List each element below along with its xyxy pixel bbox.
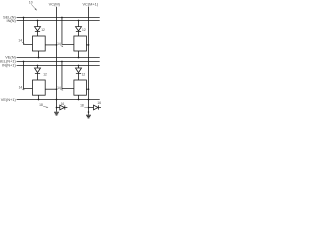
cell r0c1 left wire	[62, 18, 74, 45]
wire VE(N) row line L3	[17, 57, 100, 59]
wire box r1c0 to VC(M)	[45, 88, 56, 90]
junction VC(M+1) bottom	[88, 107, 90, 109]
diode 12 r1c0	[35, 68, 41, 80]
svg-text:16: 16	[61, 102, 65, 106]
wire box r1c0 to VE(N+1)	[38, 95, 40, 99]
junction L1/left wire c0	[23, 17, 25, 19]
svg-text:16: 16	[97, 101, 101, 105]
arrow for label 10	[31, 4, 35, 9]
diode 12 wire r0c1	[78, 21, 80, 27]
junction VC(M) bottom	[56, 107, 58, 109]
box 14 r0c1	[74, 36, 87, 51]
junction L2/diode c0	[37, 20, 39, 22]
svg-text:14: 14	[19, 86, 23, 90]
svg-text:14: 14	[57, 86, 61, 90]
svg-text:VE(N+1): VE(N+1)	[1, 97, 17, 102]
diode 12 wire r1c1	[78, 66, 80, 69]
wire column VC(M+1)	[88, 7, 90, 115]
junction L6/box c0	[38, 99, 40, 101]
arrow for label 14 r0c1	[60, 45, 62, 46]
junction VC(M)/box r1	[56, 88, 58, 90]
arrow for label 14 r1c1	[60, 88, 62, 91]
svg-text:VC(M): VC(M)	[49, 1, 61, 6]
junction VC(M)/L6	[56, 99, 58, 101]
junction VC(M+1)/box r1	[88, 88, 90, 90]
diode 12 r0c0	[35, 27, 41, 36]
box 14 r1c0	[33, 80, 46, 95]
svg-text:12: 12	[43, 72, 47, 76]
junction L2/diode c1	[78, 20, 80, 22]
wire column VC(M)	[56, 7, 58, 112]
svg-text:18: 18	[80, 104, 84, 108]
diode 12 r1c1	[76, 68, 82, 80]
junction L6/box c1	[78, 99, 80, 101]
wire box r1c1 to VC(M+1)	[86, 88, 88, 90]
diode 12 r0c1	[76, 27, 82, 36]
wire IN(N) row line L2	[17, 20, 100, 22]
arrow for label 14 r0c0	[22, 42, 24, 44]
svg-text:12: 12	[82, 28, 86, 32]
svg-text:14: 14	[18, 38, 22, 42]
junction L4/left wire c1	[61, 61, 63, 63]
junction L5/diode c0	[37, 65, 39, 67]
diode 12 wire r0c0	[37, 21, 39, 27]
cell r1c1 left wire	[62, 62, 74, 89]
box 14 r0c0	[33, 36, 46, 51]
cell r1c0 left wire	[24, 62, 33, 89]
wire SEL(N+1) row line L4	[17, 61, 100, 63]
svg-text:12: 12	[82, 73, 86, 77]
svg-text:10: 10	[29, 1, 33, 5]
svg-text:VC(M+1): VC(M+1)	[82, 2, 98, 7]
junction L1/left wire c1	[61, 17, 63, 19]
svg-text:IN(N+1): IN(N+1)	[2, 63, 16, 68]
wire box r0c1 to VC(M+1)	[86, 44, 88, 46]
junction L3/box c1	[78, 57, 80, 59]
wire SEL(N) row line L1	[17, 17, 100, 19]
wire IN(N+1) row line L5	[17, 65, 100, 67]
wire box r0c0 to VE(N)	[38, 51, 40, 58]
cell r0c0 left wire	[24, 18, 33, 45]
ground col M	[54, 112, 59, 115]
box 14 r1c1	[74, 80, 87, 95]
diode 16 col M (bottom)	[57, 105, 68, 110]
junction VC(M+1)/L6	[88, 99, 90, 101]
junction VC(M+1)/box r0	[88, 44, 90, 46]
wire box r1c1 to VE(N+1)	[78, 95, 80, 99]
arrow for label 18 col M	[43, 105, 47, 108]
lead for label 18 col M+1	[84, 107, 87, 109]
diode 16 col M+1 (bottom)	[89, 105, 102, 110]
svg-text:12: 12	[41, 28, 45, 32]
junction L4/left wire c0	[23, 61, 25, 63]
junction VC(M+1) lower blob	[88, 111, 90, 113]
junction VC(M)/box r0	[56, 44, 58, 46]
diode 12 wire r1c0	[37, 66, 39, 69]
wire box r0c0 to VC(M)	[45, 44, 56, 46]
ground col M+1	[86, 115, 91, 118]
junction L5/diode c1	[78, 65, 80, 67]
wire VE(N+1) row line L6	[17, 99, 100, 101]
svg-text:18: 18	[39, 103, 43, 107]
svg-text:IN(N): IN(N)	[7, 18, 17, 23]
arrow for label 14 r1c0	[22, 88, 24, 91]
junction L3/box c0	[38, 57, 40, 59]
wire box r0c1 to VE(N)	[78, 51, 80, 58]
